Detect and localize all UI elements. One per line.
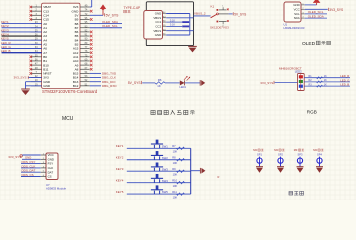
- svg-text:3V3_SYS: 3V3_SYS: [260, 81, 273, 85]
- svg-text:5V_SYS: 5V_SYS: [234, 12, 246, 16]
- svg-text:RGB: RGB: [307, 110, 317, 115]
- svg-text:1K: 1K: [324, 79, 327, 82]
- svg-text:CS: CS: [48, 175, 52, 179]
- svg-text:SDA: SDA: [294, 16, 300, 20]
- svg-text:R7: R7: [172, 144, 176, 148]
- svg-text:OLED_SDA: OLED_SDA: [308, 15, 324, 19]
- svg-text:VBUS_2: VBUS_2: [194, 12, 206, 16]
- svg-text:10K: 10K: [173, 195, 178, 199]
- svg-text:HS96L03W2C03: HS96L03W2C03: [284, 26, 305, 30]
- svg-text:OLED: OLED: [302, 41, 316, 47]
- svg-text:M3: M3: [313, 148, 317, 152]
- svg-text:5V_SYS: 5V_SYS: [106, 14, 120, 18]
- svg-text:AD9833 Module: AD9833 Module: [46, 187, 67, 191]
- svg-text:10K: 10K: [173, 184, 178, 188]
- svg-text:TYPE-C-6P: TYPE-C-6P: [124, 6, 141, 10]
- svg-text:K1: K1: [211, 5, 215, 9]
- svg-text:GND: GND: [43, 84, 51, 88]
- svg-text:LED_B: LED_B: [340, 83, 349, 87]
- svg-text:3V3_SYS: 3V3_SYS: [8, 155, 21, 159]
- svg-text:KEY2: KEY2: [116, 155, 124, 159]
- svg-text:B12: B12: [73, 84, 79, 88]
- svg-text:1K: 1K: [324, 75, 327, 78]
- svg-text:SW4: SW4: [162, 179, 169, 183]
- svg-text:10K: 10K: [173, 161, 178, 165]
- svg-text:SW3: SW3: [162, 167, 169, 171]
- svg-text:SW2: SW2: [162, 156, 169, 160]
- svg-text:1K: 1K: [324, 83, 327, 86]
- svg-text:5.1K: 5.1K: [170, 19, 175, 22]
- svg-text:R8: R8: [172, 156, 176, 160]
- svg-text:R: R: [218, 175, 220, 179]
- svg-text:10K: 10K: [173, 150, 178, 154]
- svg-text:5V_SYS: 5V_SYS: [128, 81, 142, 85]
- svg-text:M3: M3: [253, 148, 257, 152]
- svg-text:LED1: LED1: [180, 85, 187, 89]
- svg-text:KEY3: KEY3: [116, 167, 124, 171]
- svg-text:DBG_RXD: DBG_RXD: [102, 84, 117, 88]
- svg-text:R11: R11: [172, 190, 177, 194]
- svg-text:VCC: VCC: [294, 7, 300, 11]
- svg-text:STM32F103VET6-CoreBoard: STM32F103VET6-CoreBoard: [42, 89, 98, 94]
- svg-text:R6: R6: [158, 78, 162, 82]
- svg-text:SW5: SW5: [162, 190, 169, 194]
- svg-text:GND: GND: [293, 3, 299, 7]
- svg-text:R10: R10: [172, 178, 177, 182]
- svg-text:SP2: SP2: [278, 152, 283, 156]
- svg-text:KEY1: KEY1: [116, 144, 124, 148]
- svg-text:KEY5: KEY5: [116, 190, 124, 194]
- svg-text:M3: M3: [294, 148, 298, 152]
- svg-text:LED2: LED2: [295, 70, 302, 74]
- svg-text:GND: GND: [155, 33, 161, 37]
- svg-text:3V3_SYS: 3V3_SYS: [329, 8, 343, 12]
- svg-text:MCU: MCU: [62, 116, 74, 122]
- svg-text:OLED_SCL: OLED_SCL: [102, 24, 118, 28]
- svg-text:10K: 10K: [173, 172, 178, 176]
- svg-text:SK12D07VG3: SK12D07VG3: [210, 26, 229, 30]
- svg-text:SP1: SP1: [257, 152, 262, 156]
- svg-text:SW1: SW1: [162, 144, 169, 148]
- svg-text:3V3_SYS: 3V3_SYS: [14, 75, 27, 79]
- svg-text:SP3: SP3: [298, 152, 303, 156]
- svg-text:LED_B: LED_B: [1, 49, 11, 53]
- svg-text:1K: 1K: [157, 84, 161, 88]
- svg-text:SP4: SP4: [317, 152, 322, 156]
- svg-text:M3: M3: [274, 148, 278, 152]
- svg-text:KEY4: KEY4: [116, 178, 124, 182]
- svg-text:5.1K: 5.1K: [170, 24, 175, 27]
- svg-text:R9: R9: [172, 167, 176, 171]
- svg-text:DDS_CS: DDS_CS: [22, 173, 34, 177]
